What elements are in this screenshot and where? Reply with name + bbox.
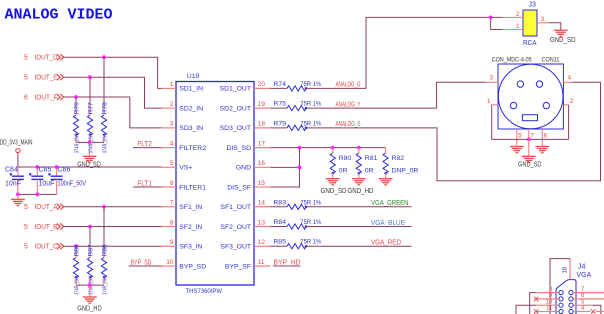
svg-text:5: 5	[24, 204, 28, 211]
svg-text:DIS_SF: DIS_SF	[227, 184, 251, 191]
svg-text:R82: R82	[392, 155, 405, 162]
capacitor C85 10uF	[36, 167, 38, 176]
svg-text:11: 11	[258, 259, 265, 266]
svg-text:GND_HD: GND_HD	[348, 188, 374, 195]
svg-text:R78: R78	[102, 102, 109, 114]
wire pin 16 GND	[271, 166, 300, 168]
wire IOUT_B to pin 8	[64, 226, 162, 228]
ground under CON11 pin 7 GND_SD	[528, 139, 530, 156]
J4 pin 8	[537, 292, 559, 294]
U19 pin 1 SD1_IN	[162, 87, 177, 89]
ground under C84	[17, 194, 19, 199]
svg-text:R84: R84	[274, 219, 287, 226]
J4 pin hole left	[559, 297, 563, 301]
wire IOUT_D to pin 1	[64, 57, 162, 88]
wire IOUT_F to pin 3	[64, 97, 162, 128]
resistor R83 75R 1%	[271, 206, 288, 208]
svg-text:C84: C84	[5, 167, 18, 174]
svg-text:12: 12	[258, 239, 266, 246]
svg-text:75R 1%: 75R 1%	[300, 239, 321, 246]
svg-text:15: 15	[258, 180, 266, 187]
svg-text:SD1_OUT: SD1_OUT	[220, 86, 251, 93]
junction R81 top	[357, 146, 361, 150]
svg-text:GND_SD: GND_SD	[518, 162, 542, 169]
J4 pin 4 no-connect	[573, 311, 590, 313]
svg-text:J3: J3	[529, 1, 537, 8]
U19 pin 18 SD3_OUT	[254, 127, 271, 129]
svg-text:IOUT_E: IOUT_E	[35, 75, 58, 82]
svg-text:R83: R83	[274, 199, 287, 206]
svg-text:0R: 0R	[365, 168, 374, 175]
wire to J4 pin 8	[530, 293, 537, 314]
net FLT2 stub pin 4	[133, 147, 161, 149]
U19 pin 9 SF3_IN	[162, 245, 177, 247]
resistor R78 374R 1%	[103, 57, 105, 112]
svg-text:6: 6	[24, 94, 28, 101]
svg-text:75R 1%: 75R 1%	[300, 120, 321, 127]
resistor R87 374R 1%	[89, 227, 91, 255]
U19 pin 16 GND	[254, 166, 271, 168]
wire IOUT_A to pin 7	[64, 206, 162, 208]
op-amp U19 THS7360IPW body	[176, 82, 254, 286]
wire IOUT_C to pin 9	[64, 245, 162, 247]
U19 pin 14 SF1_OUT	[254, 206, 271, 208]
U19 pin 3 SD3_IN	[162, 127, 177, 129]
svg-text:3: 3	[170, 121, 174, 128]
svg-text:FILTER2: FILTER2	[179, 145, 206, 152]
svg-text:CON11: CON11	[542, 56, 560, 63]
CON11 pin 7	[528, 129, 530, 139]
U19 pin 2 SD2_IN	[162, 107, 177, 109]
J3 pin 2	[502, 16, 523, 18]
svg-text:7: 7	[530, 132, 534, 139]
svg-text:SD2_OUT: SD2_OUT	[220, 105, 251, 112]
J4 pin hole right	[569, 297, 573, 301]
svg-text:ANALOG_G: ANALOG_G	[336, 82, 361, 89]
J4 pin 11 no-connect	[536, 311, 559, 313]
junction C86 top	[55, 165, 59, 169]
svg-text:ANALOG VIDEO: ANALOG VIDEO	[5, 6, 113, 23]
svg-text:BYP_SF: BYP_SF	[225, 263, 251, 270]
svg-text:IOUT_F: IOUT_F	[35, 94, 58, 101]
CON11 key slot	[522, 115, 537, 121]
svg-text:BYP_SD: BYP_SD	[131, 259, 152, 266]
svg-text:5: 5	[24, 75, 28, 82]
U19 pin 19 SD2_OUT	[254, 107, 271, 109]
svg-text:SD1_IN: SD1_IN	[179, 86, 203, 93]
svg-text:374R_1%: 374R_1%	[75, 136, 81, 154]
J4 pin hole left	[559, 303, 563, 307]
wire VGA_BLUE	[306, 226, 412, 228]
U19 pin 13 SF2_OUT	[254, 226, 271, 228]
svg-text:16: 16	[562, 266, 568, 273]
junction C85 bottom	[35, 193, 39, 197]
resistor R86 374R 1%	[75, 246, 77, 254]
svg-text:IOUT_B: IOUT_B	[35, 224, 58, 231]
svg-text:5: 5	[518, 132, 522, 139]
svg-text:6: 6	[170, 180, 174, 187]
junction IOUT_D / R78	[102, 55, 106, 59]
svg-text:SF3_IN: SF3_IN	[179, 244, 202, 251]
U19 pin 4 FILTER2	[162, 147, 177, 149]
svg-text:VGA: VGA	[577, 272, 592, 279]
svg-text:2: 2	[170, 101, 174, 108]
CON11 pin hole bottom-left	[510, 102, 516, 108]
svg-text:C85: C85	[39, 167, 52, 174]
J4 pin hole right	[569, 303, 573, 307]
junction IOUT_F / R76	[74, 95, 78, 99]
J3 pin 1	[502, 29, 523, 31]
resistor R84 75R 1%	[271, 226, 288, 228]
CON11 pin hole top-left	[517, 81, 523, 87]
CON11 pin 4	[563, 81, 571, 83]
J3 pin 3	[537, 22, 549, 24]
J4 pin 9 no-connect	[536, 298, 559, 300]
svg-text:GND_SD: GND_SD	[321, 188, 347, 195]
junction bus	[88, 283, 92, 287]
resistor R75 75R 1%	[271, 107, 288, 109]
ground under CON11 pin 6	[541, 139, 543, 146]
U19 pin 17 DIS_SD	[254, 147, 271, 149]
ground GND_HD under R86-R88	[89, 285, 91, 297]
resistor R76 374R 1%	[75, 97, 77, 112]
svg-text:R75: R75	[274, 101, 287, 108]
svg-text:4: 4	[170, 140, 174, 147]
resistor R74 75R 1%	[271, 87, 288, 89]
svg-text:CON_MDC-4-05: CON_MDC-4-05	[492, 56, 532, 63]
svg-text:VGA_RED: VGA_RED	[371, 240, 401, 247]
svg-text:R77: R77	[88, 102, 95, 114]
svg-text:THS7360IPW: THS7360IPW	[186, 288, 223, 295]
svg-text:R86: R86	[74, 244, 81, 256]
svg-text:10: 10	[166, 259, 174, 266]
U19 pin 6 FILTER1	[162, 186, 177, 188]
svg-text:ANALOG_S: ANALOG_S	[336, 121, 361, 128]
svg-text:FILTER1: FILTER1	[179, 184, 206, 191]
svg-text:R80: R80	[339, 155, 352, 162]
svg-text:ANALOG_Y: ANALOG_Y	[336, 101, 361, 108]
J4 pin 6	[573, 298, 604, 300]
U19 pin 15 DIS_SF	[254, 186, 271, 188]
svg-text:VDD_3V3_MAIN: VDD_3V3_MAIN	[0, 140, 33, 147]
power VDD_3V3_MAIN	[16, 149, 20, 153]
resistor R80 0R	[332, 148, 334, 153]
svg-text:VGA_BLUE: VGA_BLUE	[371, 220, 405, 227]
svg-text:5: 5	[170, 160, 174, 167]
svg-text:DNP_0R: DNP_0R	[392, 168, 419, 175]
junction R80 top	[331, 146, 335, 150]
junction J3 branch	[489, 16, 493, 20]
J4 pin hole left	[559, 309, 563, 313]
svg-text:1: 1	[516, 23, 520, 30]
svg-text:R79: R79	[274, 120, 287, 127]
svg-text:SF1_OUT: SF1_OUT	[220, 204, 251, 211]
svg-text:J4: J4	[578, 263, 586, 270]
wire pin 17 DIS_SD	[271, 147, 386, 149]
svg-text:75R 1%: 75R 1%	[300, 101, 321, 108]
U19 pin 5 VS+	[162, 166, 177, 168]
ground under R80 GND_SD	[332, 173, 334, 179]
svg-text:R87: R87	[88, 244, 95, 256]
U19 pin 12 SF3_OUT	[254, 245, 271, 247]
ground GND_SD at J3	[554, 29, 568, 31]
svg-text:8: 8	[170, 219, 174, 226]
resistor R77 374R 1%	[89, 77, 91, 112]
svg-text:5: 5	[24, 55, 28, 62]
capacitor C84 10nF	[17, 167, 19, 176]
svg-text:R76: R76	[74, 102, 81, 114]
svg-text:0R: 0R	[339, 168, 348, 175]
svg-text:GND: GND	[236, 165, 251, 172]
wire ANALOG_Y to CON11 pin 3	[306, 82, 486, 108]
svg-text:IOUT_D: IOUT_D	[35, 55, 58, 62]
svg-text:FLT1: FLT1	[137, 180, 152, 187]
svg-text:1: 1	[170, 81, 174, 88]
svg-text:U19: U19	[187, 73, 200, 80]
J4 pin hole right	[569, 309, 573, 313]
svg-text:VS+: VS+	[179, 165, 192, 172]
wire IOUT_E to pin 2	[64, 77, 162, 108]
junction IOUT_B / R87	[88, 225, 92, 229]
svg-text:R88: R88	[102, 244, 109, 256]
CON11 pin 1	[492, 104, 498, 106]
J4 pin 4 offpage stub	[596, 311, 604, 313]
svg-text:10nF: 10nF	[5, 181, 21, 188]
resistor R82 DNP_0R	[385, 148, 387, 153]
junction tie at pin17 row	[298, 146, 302, 150]
ground under CON11 pin 5	[516, 139, 518, 146]
junction tie at pin16 row	[298, 165, 302, 169]
net BYP_HD stub pin 11	[273, 265, 301, 267]
svg-text:R85: R85	[274, 239, 287, 246]
ground GND_SD under R76-R78	[89, 142, 91, 156]
svg-text:C86: C86	[58, 167, 71, 174]
svg-text:SF3_OUT: SF3_OUT	[220, 244, 251, 251]
net FLT1 stub pin 6	[133, 186, 161, 188]
svg-text:4: 4	[568, 75, 572, 82]
U19 pin 7 SF1_IN	[162, 206, 177, 208]
svg-text:75R 1%: 75R 1%	[300, 199, 321, 206]
wire J3 pin3 to ground	[549, 23, 561, 30]
U19 pin 20 SD1_OUT	[254, 87, 271, 89]
svg-text:374R_1%: 374R_1%	[103, 136, 109, 154]
J4 pin 10	[536, 304, 559, 306]
svg-text:16: 16	[258, 160, 266, 167]
svg-text:7: 7	[170, 200, 174, 207]
junction IOUT_A / R88	[102, 205, 106, 209]
junction IOUT_E / R77	[88, 75, 92, 79]
J4 pin hole left	[559, 291, 563, 295]
svg-text:6: 6	[544, 132, 548, 139]
svg-text:3: 3	[541, 16, 545, 23]
svg-text:SF1_IN: SF1_IN	[179, 204, 202, 211]
J4 pin 5	[573, 304, 592, 306]
svg-text:374R_1%: 374R_1%	[75, 278, 81, 295]
svg-text:10: 10	[546, 299, 553, 305]
U19 pin 10 BYP_SD	[162, 265, 177, 267]
net BYP_SD stub pin 10	[129, 265, 162, 267]
svg-text:13: 13	[258, 219, 266, 226]
wire pin 15 DIS_SF	[271, 148, 300, 187]
svg-text:SD2_IN: SD2_IN	[179, 105, 203, 112]
svg-text:GND_HD: GND_HD	[77, 306, 102, 313]
svg-text:DIS_SD: DIS_SD	[226, 145, 251, 152]
svg-text:374R_1%: 374R_1%	[103, 278, 109, 295]
svg-text:100nF_50V: 100nF_50V	[58, 181, 87, 188]
ground under R82	[385, 173, 387, 179]
svg-text:75R 1%: 75R 1%	[300, 81, 321, 88]
wire VGA_RED	[306, 245, 412, 247]
junction C85 top	[35, 165, 39, 169]
svg-text:11: 11	[546, 306, 553, 312]
wire R86-R88 bottoms bus	[76, 284, 104, 286]
svg-text:19: 19	[258, 101, 266, 108]
junction C84 bottom	[16, 193, 20, 197]
svg-text:RCA: RCA	[523, 40, 537, 47]
svg-text:20: 20	[258, 81, 266, 88]
svg-text:BYP_SD: BYP_SD	[179, 263, 206, 270]
svg-text:BYP_HD: BYP_HD	[274, 259, 301, 266]
U19 pin 8 SF2_IN	[162, 226, 177, 228]
svg-text:3: 3	[490, 75, 494, 82]
J4 pin 7	[573, 292, 604, 294]
svg-text:SF2_IN: SF2_IN	[179, 224, 202, 231]
wire J4 pin 5 corner	[593, 305, 601, 314]
CON11 pin 3	[486, 81, 498, 83]
wire ANALOG_G to J3	[306, 17, 491, 88]
wire cap bottoms bus	[18, 193, 57, 195]
svg-text:GND_SD: GND_SD	[550, 37, 576, 44]
resistor R81 0R	[358, 148, 360, 153]
svg-text:R74: R74	[274, 81, 287, 88]
svg-text:10uF: 10uF	[39, 181, 55, 188]
wire VGA_GREEN	[306, 206, 412, 208]
svg-text:75R 1%: 75R 1%	[300, 219, 321, 226]
resistor R85 75R 1%	[271, 245, 288, 247]
svg-text:2: 2	[570, 98, 574, 105]
svg-text:14: 14	[258, 200, 266, 207]
junction bus	[88, 141, 92, 145]
capacitor C86 100nF_50V	[56, 167, 58, 176]
CON11 pin 6	[541, 129, 543, 139]
svg-text:17: 17	[258, 140, 266, 147]
wire J3 input branch	[491, 17, 503, 29]
svg-text:5: 5	[24, 224, 28, 231]
J4 pin 16	[569, 259, 571, 280]
junction pin 7 / bus	[527, 138, 531, 142]
svg-text:FLT2: FLT2	[137, 141, 152, 148]
CON11 pin hole top-right	[536, 81, 542, 87]
svg-text:R81: R81	[365, 155, 378, 162]
resistor R79 75R 1%	[271, 127, 288, 129]
svg-text:2: 2	[516, 11, 520, 18]
wire to J4 pin 10	[516, 305, 536, 314]
svg-text:IOUT_A: IOUT_A	[35, 204, 58, 211]
svg-text:18: 18	[258, 121, 266, 128]
wire to J4 pin 16	[550, 259, 570, 314]
wire CON11 ground bus	[492, 138, 569, 140]
J4 pin hole right	[569, 291, 573, 295]
svg-text:SD3_OUT: SD3_OUT	[220, 125, 251, 132]
svg-text:SD3_IN: SD3_IN	[179, 125, 203, 132]
junction IOUT_C / R86	[74, 244, 78, 248]
U19 pin 11 BYP_SF	[254, 265, 271, 267]
wire R76-R78 bottoms bus	[76, 141, 104, 143]
svg-text:9: 9	[170, 239, 174, 246]
wire ANALOG_S to CON11 pin 4	[306, 82, 601, 181]
CON11 pin 2	[563, 104, 568, 106]
svg-text:5: 5	[24, 244, 28, 251]
svg-text:SF2_OUT: SF2_OUT	[220, 224, 251, 231]
wire VDD to VS+ bus	[17, 153, 19, 167]
J4 D-sub shell	[556, 280, 576, 314]
svg-text:IOUT_C: IOUT_C	[35, 244, 58, 251]
CON11 pin hole bottom-right	[543, 102, 549, 108]
ground under R81 GND_HD	[358, 173, 360, 179]
svg-text:1: 1	[487, 98, 491, 105]
CON11 pin 5	[516, 129, 518, 139]
svg-text:VGA_GREEN: VGA_GREEN	[371, 200, 409, 207]
resistor R88 374R 1%	[103, 207, 105, 255]
